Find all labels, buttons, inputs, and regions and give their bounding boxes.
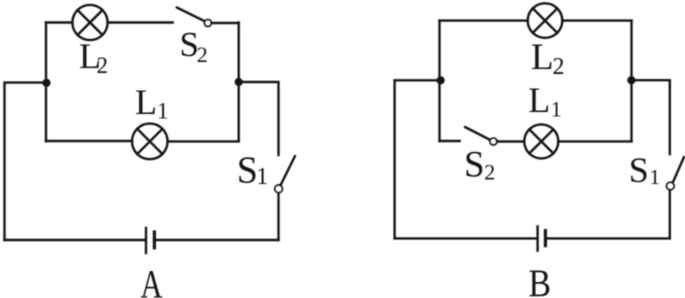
svg-text:1: 1 (256, 164, 268, 190)
svg-text:S: S (629, 150, 649, 190)
svg-text:B: B (529, 262, 552, 298)
svg-text:L: L (135, 82, 157, 122)
svg-text:A: A (141, 262, 163, 298)
svg-text:1: 1 (650, 165, 661, 189)
svg-text:2: 2 (197, 42, 208, 67)
svg-text:1: 1 (157, 99, 169, 124)
svg-text:L: L (528, 80, 550, 120)
svg-text:S: S (464, 144, 485, 185)
svg-text:L: L (531, 37, 554, 78)
svg-text:2: 2 (97, 53, 109, 78)
svg-text:2: 2 (553, 54, 565, 80)
svg-text:2: 2 (484, 159, 495, 184)
svg-text:1: 1 (551, 97, 562, 122)
svg-text:S: S (237, 149, 258, 191)
